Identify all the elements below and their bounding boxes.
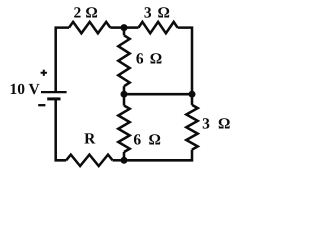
node A junction dot (top middle) — [121, 24, 128, 31]
wire: upper 6Ω to node C — [123, 86, 126, 94]
wire: left branch from battery + up and across to resistor 2Ω — [56, 28, 69, 91]
wire: R to battery - terminal — [56, 100, 66, 160]
battery 10V long plate (+) — [41, 91, 67, 93]
wire: lead node C down to lower 6Ω — [123, 94, 126, 105]
battery 10V short plate (-) — [47, 97, 60, 100]
svg-text:3: 3 — [202, 116, 210, 133]
svg-text:Ω: Ω — [148, 131, 160, 148]
resistor 3Ω (right side, vertical) — [186, 105, 197, 150]
wire: 2Ω to node A — [110, 26, 124, 29]
svg-text:6: 6 — [133, 131, 141, 148]
wire: node D to resistor R — [113, 159, 124, 162]
svg-text:Ω: Ω — [150, 50, 162, 67]
resistor 3Ω (top right, horizontal) — [139, 22, 178, 33]
node D junction dot (bottom middle) — [121, 157, 128, 164]
wire: lead node A down to upper 6Ω — [123, 28, 126, 36]
wire: middle link node C to node B — [124, 93, 192, 96]
svg-text:6: 6 — [136, 50, 144, 67]
battery - sign — [38, 104, 45, 106]
svg-text:3: 3 — [144, 4, 152, 21]
resistor 6Ω (upper middle, vertical) — [118, 35, 129, 86]
svg-text:Ω: Ω — [218, 116, 230, 133]
svg-text:Ω: Ω — [85, 4, 97, 21]
wire: lead node B down to 3Ω right — [191, 94, 194, 105]
resistor R (bottom, horizontal) — [66, 155, 112, 166]
svg-text:Ω: Ω — [157, 4, 169, 21]
wire: node A to resistor 3Ω top — [124, 26, 139, 29]
resistor 2Ω (top left, horizontal) — [69, 22, 110, 33]
wire: lower 6Ω to node D — [123, 152, 126, 160]
node B junction dot (middle right) — [189, 91, 196, 98]
svg-text:10 V: 10 V — [9, 81, 40, 98]
svg-text:2: 2 — [74, 4, 82, 21]
resistor 6Ω (lower middle, vertical) — [118, 106, 129, 153]
svg-text:R: R — [84, 130, 96, 147]
wire: 3Ω top to right side down to node B — [178, 28, 192, 95]
battery + sign — [41, 70, 47, 76]
wire: 3Ω right down and along bottom to node D — [124, 150, 192, 161]
node C junction dot (middle left) — [121, 91, 128, 98]
